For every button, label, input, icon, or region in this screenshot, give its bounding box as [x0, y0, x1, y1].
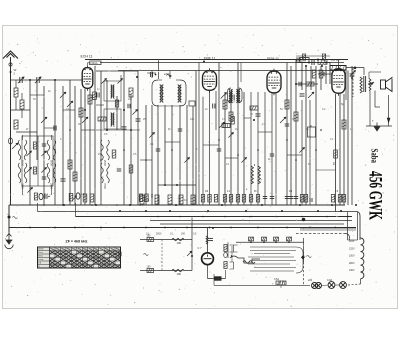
svg-text:0.5A: 0.5A — [274, 278, 279, 281]
svg-text:5000: 5000 — [156, 233, 162, 236]
svg-text:1M: 1M — [235, 128, 238, 131]
svg-text:0.1: 0.1 — [146, 199, 150, 202]
svg-text:100: 100 — [190, 118, 195, 121]
svg-text:EFM 11: EFM 11 — [267, 57, 279, 61]
svg-text:EBF 11: EBF 11 — [204, 57, 215, 61]
svg-text:2500: 2500 — [103, 160, 107, 166]
svg-text:200: 200 — [181, 233, 186, 236]
svg-text:7500: 7500 — [103, 183, 107, 189]
svg-text:Saba: Saba — [369, 149, 379, 164]
svg-text:240V: 240V — [349, 269, 355, 272]
svg-text:ECH 11: ECH 11 — [81, 55, 93, 59]
svg-text:2M: 2M — [289, 191, 292, 193]
svg-text:W: W — [14, 68, 17, 72]
svg-text:C 7: C 7 — [198, 246, 203, 250]
svg-text:125V: 125V — [349, 247, 355, 250]
svg-text:150V: 150V — [349, 255, 355, 258]
svg-text:Lang: Lang — [38, 259, 44, 261]
svg-text:0.9A: 0.9A — [327, 279, 332, 282]
svg-text:Mitte: Mitte — [38, 255, 44, 258]
svg-text:150mA: 150mA — [90, 62, 98, 65]
svg-text:5000: 5000 — [21, 160, 25, 166]
svg-text:0.3: 0.3 — [184, 199, 188, 202]
svg-text:456 GWK: 456 GWK — [365, 171, 386, 220]
svg-text:220V: 220V — [349, 262, 355, 265]
svg-text:Kurz: Kurz — [38, 251, 43, 254]
svg-text:Welle: Welle — [38, 249, 44, 251]
svg-text:220: 220 — [308, 279, 313, 282]
svg-text:110V: 110V — [349, 240, 355, 243]
svg-text:5000: 5000 — [50, 160, 54, 166]
svg-text:100: 100 — [177, 241, 182, 245]
svg-text:1M: 1M — [205, 191, 208, 193]
svg-text:ZF = 468 kHz: ZF = 468 kHz — [66, 240, 88, 244]
svg-text:100: 100 — [177, 272, 182, 276]
svg-text:150: 150 — [147, 266, 152, 269]
